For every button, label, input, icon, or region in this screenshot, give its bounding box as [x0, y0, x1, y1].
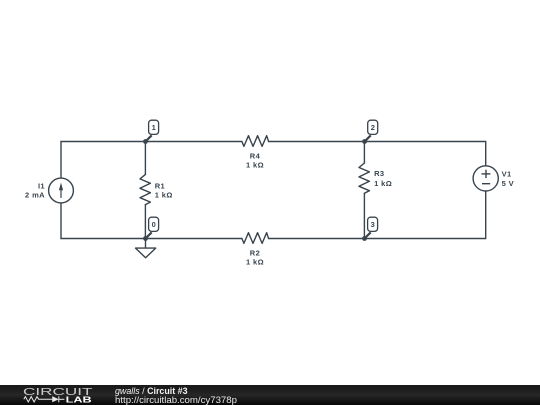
- svg-text:LAB: LAB: [66, 394, 92, 404]
- svg-text:0: 0: [152, 220, 156, 229]
- svg-text:1 kΩ: 1 kΩ: [374, 179, 392, 188]
- svg-text:I1: I1: [38, 181, 45, 190]
- svg-text:1: 1: [152, 123, 156, 132]
- svg-text:2: 2: [371, 123, 375, 132]
- svg-text:1 kΩ: 1 kΩ: [155, 190, 173, 199]
- svg-text:R1: R1: [155, 182, 165, 191]
- svg-text:R4: R4: [250, 151, 261, 160]
- svg-text:2 mA: 2 mA: [25, 191, 45, 200]
- svg-text:3: 3: [371, 220, 375, 229]
- svg-text:V1: V1: [502, 170, 512, 179]
- svg-text:5 V: 5 V: [502, 179, 514, 188]
- svg-text:R3: R3: [374, 169, 384, 178]
- svg-text:R2: R2: [250, 248, 260, 257]
- svg-text:1 kΩ: 1 kΩ: [246, 258, 264, 267]
- svg-text:1 kΩ: 1 kΩ: [246, 161, 264, 170]
